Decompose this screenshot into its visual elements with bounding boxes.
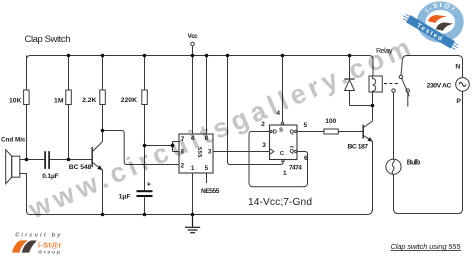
resistor R 2.2K — [100, 56, 106, 131]
BC548 emitter arrow — [97, 165, 102, 170]
wire 555 pin1 to ground rail — [192, 173, 194, 215]
badge i-St@r Tested — [401, 2, 460, 52]
wire bottom ground rail — [27, 142, 373, 215]
junction 220K to Vcc rail — [143, 54, 147, 58]
resistor R 10K — [24, 56, 30, 160]
wire collector to 555 pin2 — [103, 131, 180, 165]
wire 100R to BC187 base — [338, 131, 362, 133]
svg-text:P: P — [456, 98, 461, 105]
capacitor C 1uF electrolytic — [137, 191, 153, 196]
transistor Q2 BC 187 — [363, 106, 372, 210]
svg-text:Cnd Mic: Cnd Mic — [1, 136, 26, 143]
wire top Vcc rail — [27, 56, 374, 77]
svg-text:3: 3 — [262, 142, 266, 149]
svg-text:2: 2 — [181, 163, 185, 170]
7474 clock triangle — [270, 149, 274, 155]
junction mic to 10K — [25, 158, 29, 162]
Vcc terminal — [191, 42, 195, 46]
diode D1 flyback — [344, 56, 372, 106]
svg-text:BC 187: BC 187 — [348, 143, 369, 150]
wire 7474 pin1 (CLR) to Vcc rail — [228, 56, 284, 165]
ground — [185, 215, 200, 233]
relay RL1 coil — [369, 76, 382, 92]
wire 555 pin8 to rail — [206, 56, 208, 135]
junction 7474 pin1 to Vcc rail — [226, 54, 230, 58]
wire 220K junction to 555 pins 7,6 bracket — [145, 142, 180, 152]
wire 1uF to ground rail — [144, 196, 146, 215]
wire bulb to AC loop bottom — [394, 91, 463, 213]
condenser microphone Cnd Mic — [6, 150, 20, 184]
junction BC548 emitter to ground rail — [101, 213, 105, 217]
svg-text:230V AC: 230V AC — [427, 83, 452, 90]
7474 Qbar pin circle — [295, 150, 297, 152]
junction 555 pin8 to Vcc rail — [205, 54, 209, 58]
wire 7474 Q out to 100R — [297, 131, 324, 133]
svg-text:10K: 10K — [9, 98, 22, 105]
svg-text:Group: Group — [38, 249, 62, 255]
resistor R 100 — [324, 129, 338, 134]
svg-text:i-St@r: i-St@r — [38, 242, 61, 249]
svg-text:Clap switch using 555: Clap switch using 555 — [391, 242, 462, 251]
svg-text:Circuit by: Circuit by — [15, 232, 62, 238]
capacitor C 0.1uF coupling — [45, 151, 49, 169]
svg-text:2.2K: 2.2K — [82, 97, 96, 104]
junction diode to relay coil / BC187 collector — [371, 104, 375, 108]
svg-text:0.1µF: 0.1µF — [42, 173, 59, 180]
svg-text:S: S — [279, 127, 283, 133]
7474 Qbar overline — [290, 146, 294, 148]
svg-text:D: D — [273, 129, 277, 135]
svg-text:1µF: 1µF — [119, 194, 131, 201]
svg-text:Clap Switch: Clap Switch — [25, 34, 71, 45]
svg-text:NE555: NE555 — [201, 188, 220, 195]
junction 1M to Vcc rail — [67, 54, 71, 58]
junction 555 pin1 to ground rail — [191, 213, 195, 217]
dashed mechanical link — [384, 83, 399, 85]
flip-flop U2 7474 box — [270, 125, 298, 160]
svg-text:Q: Q — [290, 149, 295, 155]
7474 clear bubble pin1 — [282, 160, 284, 162]
junction 2.2K to BC548 collector — [101, 129, 105, 133]
junction 1uF to ground rail — [143, 213, 147, 217]
relay switch contacts — [392, 56, 463, 160]
wire cap to base — [49, 159, 92, 161]
resistor R 1M — [66, 56, 72, 160]
op-amp timer U1 NE555 box — [179, 134, 213, 173]
svg-text:220K: 220K — [121, 97, 137, 104]
svg-text:7474: 7474 — [289, 164, 302, 171]
svg-text:14-Vcc;7-Gnd: 14-Vcc;7-Gnd — [248, 197, 312, 208]
AC source 230V — [456, 78, 470, 92]
svg-text:N: N — [455, 64, 460, 71]
wire 555 pin5 stub — [206, 173, 208, 183]
7474 set bubble pin4 — [281, 122, 283, 124]
svg-text:Vcc: Vcc — [188, 33, 199, 40]
svg-text:1M: 1M — [54, 98, 64, 105]
svg-text:5: 5 — [205, 165, 209, 172]
junction 2.2K to Vcc rail — [101, 54, 105, 58]
wire 555 pin4 to rail — [192, 56, 194, 135]
wire mic bottom terminal — [20, 174, 27, 178]
svg-text:Q: Q — [290, 129, 295, 135]
junction 7474 pin4 to Vcc rail — [281, 54, 285, 58]
svg-text:1: 1 — [283, 170, 287, 177]
resistor R 220K — [142, 56, 148, 191]
svg-text:5: 5 — [303, 122, 307, 129]
svg-text:1: 1 — [191, 165, 195, 172]
7474 D pin circle — [270, 130, 272, 132]
BC187 emitter arrow — [367, 137, 372, 142]
bulb — [386, 159, 401, 174]
transistor Q1 BC 548 — [92, 131, 102, 215]
svg-text:100: 100 — [325, 118, 336, 125]
svg-text:Bulb: Bulb — [407, 159, 421, 166]
junction 1M to BC548 base — [67, 158, 71, 162]
junction 555 pins 7-6 tie — [171, 144, 175, 148]
junction diode to Vcc rail — [348, 54, 352, 58]
wire 7474 pin4 to rail — [282, 56, 284, 123]
junction Vcc terminal / 555 pin4 — [191, 54, 195, 58]
wire mic top terminal — [20, 159, 45, 161]
7474 Q pin circle — [295, 130, 297, 132]
wire 7474 feedback loop Qbar to D — [249, 132, 308, 187]
wire 555 pin3 output to 7474 clock — [213, 151, 270, 153]
svg-text:+: + — [147, 180, 152, 189]
junction 220K to 1uF — [143, 144, 147, 148]
